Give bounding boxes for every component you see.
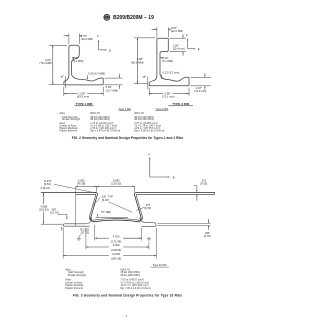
svg-text:FIG. 2 Geometry and Nominal De: FIG. 2 Geometry and Nominal Design Prope…	[72, 136, 184, 140]
svg-text:Mp = 30.2 k-ft [41.0 kN-m]: Mp = 30.2 k-ft [41.0 kN-m]	[120, 286, 150, 290]
svg-text:[4.78]: [4.78]	[204, 234, 211, 238]
svg-text:Type 2 Rib: Type 2 Rib	[156, 107, 169, 111]
svg-text:[16.70]: [16.70]	[50, 210, 58, 214]
svg-text:(12.7 MM): (12.7 MM)	[106, 88, 118, 92]
svg-text:Plastic Moment: Plastic Moment	[59, 128, 77, 132]
svg-text:2 PLCS: 2 PLCS	[41, 186, 50, 190]
svg-text:[171.45]: [171.45]	[111, 239, 121, 243]
svg-text:Mp = 6.00 k-ft [8.14 kN-m]: Mp = 6.00 k-ft [8.14 kN-m]	[134, 128, 164, 132]
svg-text:TYPE 1 RIB: TYPE 1 RIB	[76, 102, 94, 106]
svg-text:F: F	[97, 34, 99, 38]
svg-text:Type 1 Rib: Type 1 Rib	[118, 107, 131, 111]
svg-text:(76.2 MM): (76.2 MM)	[40, 61, 52, 65]
svg-text:E: E	[109, 48, 111, 52]
svg-text:6061-T6: 6061-T6	[134, 111, 144, 115]
svg-text:(71.1 mm): (71.1 mm)	[162, 95, 174, 99]
svg-text:[128.59]: [128.59]	[111, 248, 121, 252]
svg-text:FIG. 3 Geometry and Nominal De: FIG. 3 Geometry and Nominal Design Prope…	[73, 293, 182, 297]
svg-text:0.12 (3.2 mm): 0.12 (3.2 mm)	[163, 70, 180, 74]
svg-text:38 ksi [260 MPa]: 38 ksi [260 MPa]	[90, 117, 110, 121]
svg-text:[57.23]: [57.23]	[81, 231, 89, 235]
svg-text:E: E	[198, 47, 200, 51]
svg-text:(11.9 mm): (11.9 mm)	[194, 89, 206, 93]
svg-text:Tensile Strength: Tensile Strength	[65, 273, 86, 277]
svg-text:F: F	[148, 152, 150, 156]
svg-text:[9.53]: [9.53]	[144, 206, 151, 210]
svg-text:(86.0 MM): (86.0 MM)	[131, 60, 143, 64]
svg-text:Mp = 4.87 k-ft [6.73 kN-m]: Mp = 4.87 k-ft [6.73 kN-m]	[90, 128, 120, 132]
svg-text:Tensile Strength: Tensile Strength	[59, 117, 80, 121]
svg-text:(5.1 MM): (5.1 MM)	[162, 59, 173, 63]
svg-text:Alloy: Alloy	[59, 111, 65, 115]
svg-text:5.000: 5.000	[113, 243, 120, 247]
svg-text:(19.0 MM): (19.0 MM)	[81, 37, 93, 41]
svg-text:11.000: 11.000	[112, 252, 121, 256]
svg-text:E: E	[173, 176, 175, 180]
svg-text:F: F	[186, 34, 188, 38]
svg-text:TYPE 2 RIB: TYPE 2 RIB	[172, 102, 190, 106]
svg-text:(22.0 MM): (22.0 MM)	[171, 29, 183, 33]
svg-text:[129.10]: [129.10]	[111, 182, 121, 186]
svg-text:B209/B209M − 19: B209/B209M − 19	[113, 15, 154, 21]
svg-text:[9.53]: [9.53]	[200, 181, 207, 185]
svg-text:[76.28]: [76.28]	[77, 182, 85, 186]
svg-text:[3.18]: [3.18]	[102, 198, 109, 202]
svg-text:75° REF: 75° REF	[101, 210, 112, 214]
svg-text:38 ksi [260 MPa]: 38 ksi [260 MPa]	[134, 117, 154, 121]
svg-text:[9.53]: [9.53]	[44, 182, 51, 186]
svg-text:[115.92]: [115.92]	[39, 208, 49, 212]
svg-text:38 ksi [260 MPa]: 38 ksi [260 MPa]	[120, 273, 140, 277]
svg-text:.120 TYP: .120 TYP	[101, 195, 113, 199]
svg-text:0.25 (6.3 MM): 0.25 (6.3 MM)	[88, 71, 105, 75]
svg-text:Plastic Moment: Plastic Moment	[65, 286, 83, 290]
svg-text:6.750: 6.750	[113, 234, 120, 238]
svg-text:6061-T6: 6061-T6	[90, 111, 100, 115]
svg-text:(25.4 mm): (25.4 mm)	[173, 46, 185, 50]
svg-text:Type 16 Rib: Type 16 Rib	[153, 263, 167, 267]
svg-text:(5.1 MM): (5.1 MM)	[73, 59, 84, 63]
svg-text:[281.06]: [281.06]	[111, 257, 121, 261]
svg-text:(63.5 mm): (63.5 mm)	[77, 95, 89, 99]
